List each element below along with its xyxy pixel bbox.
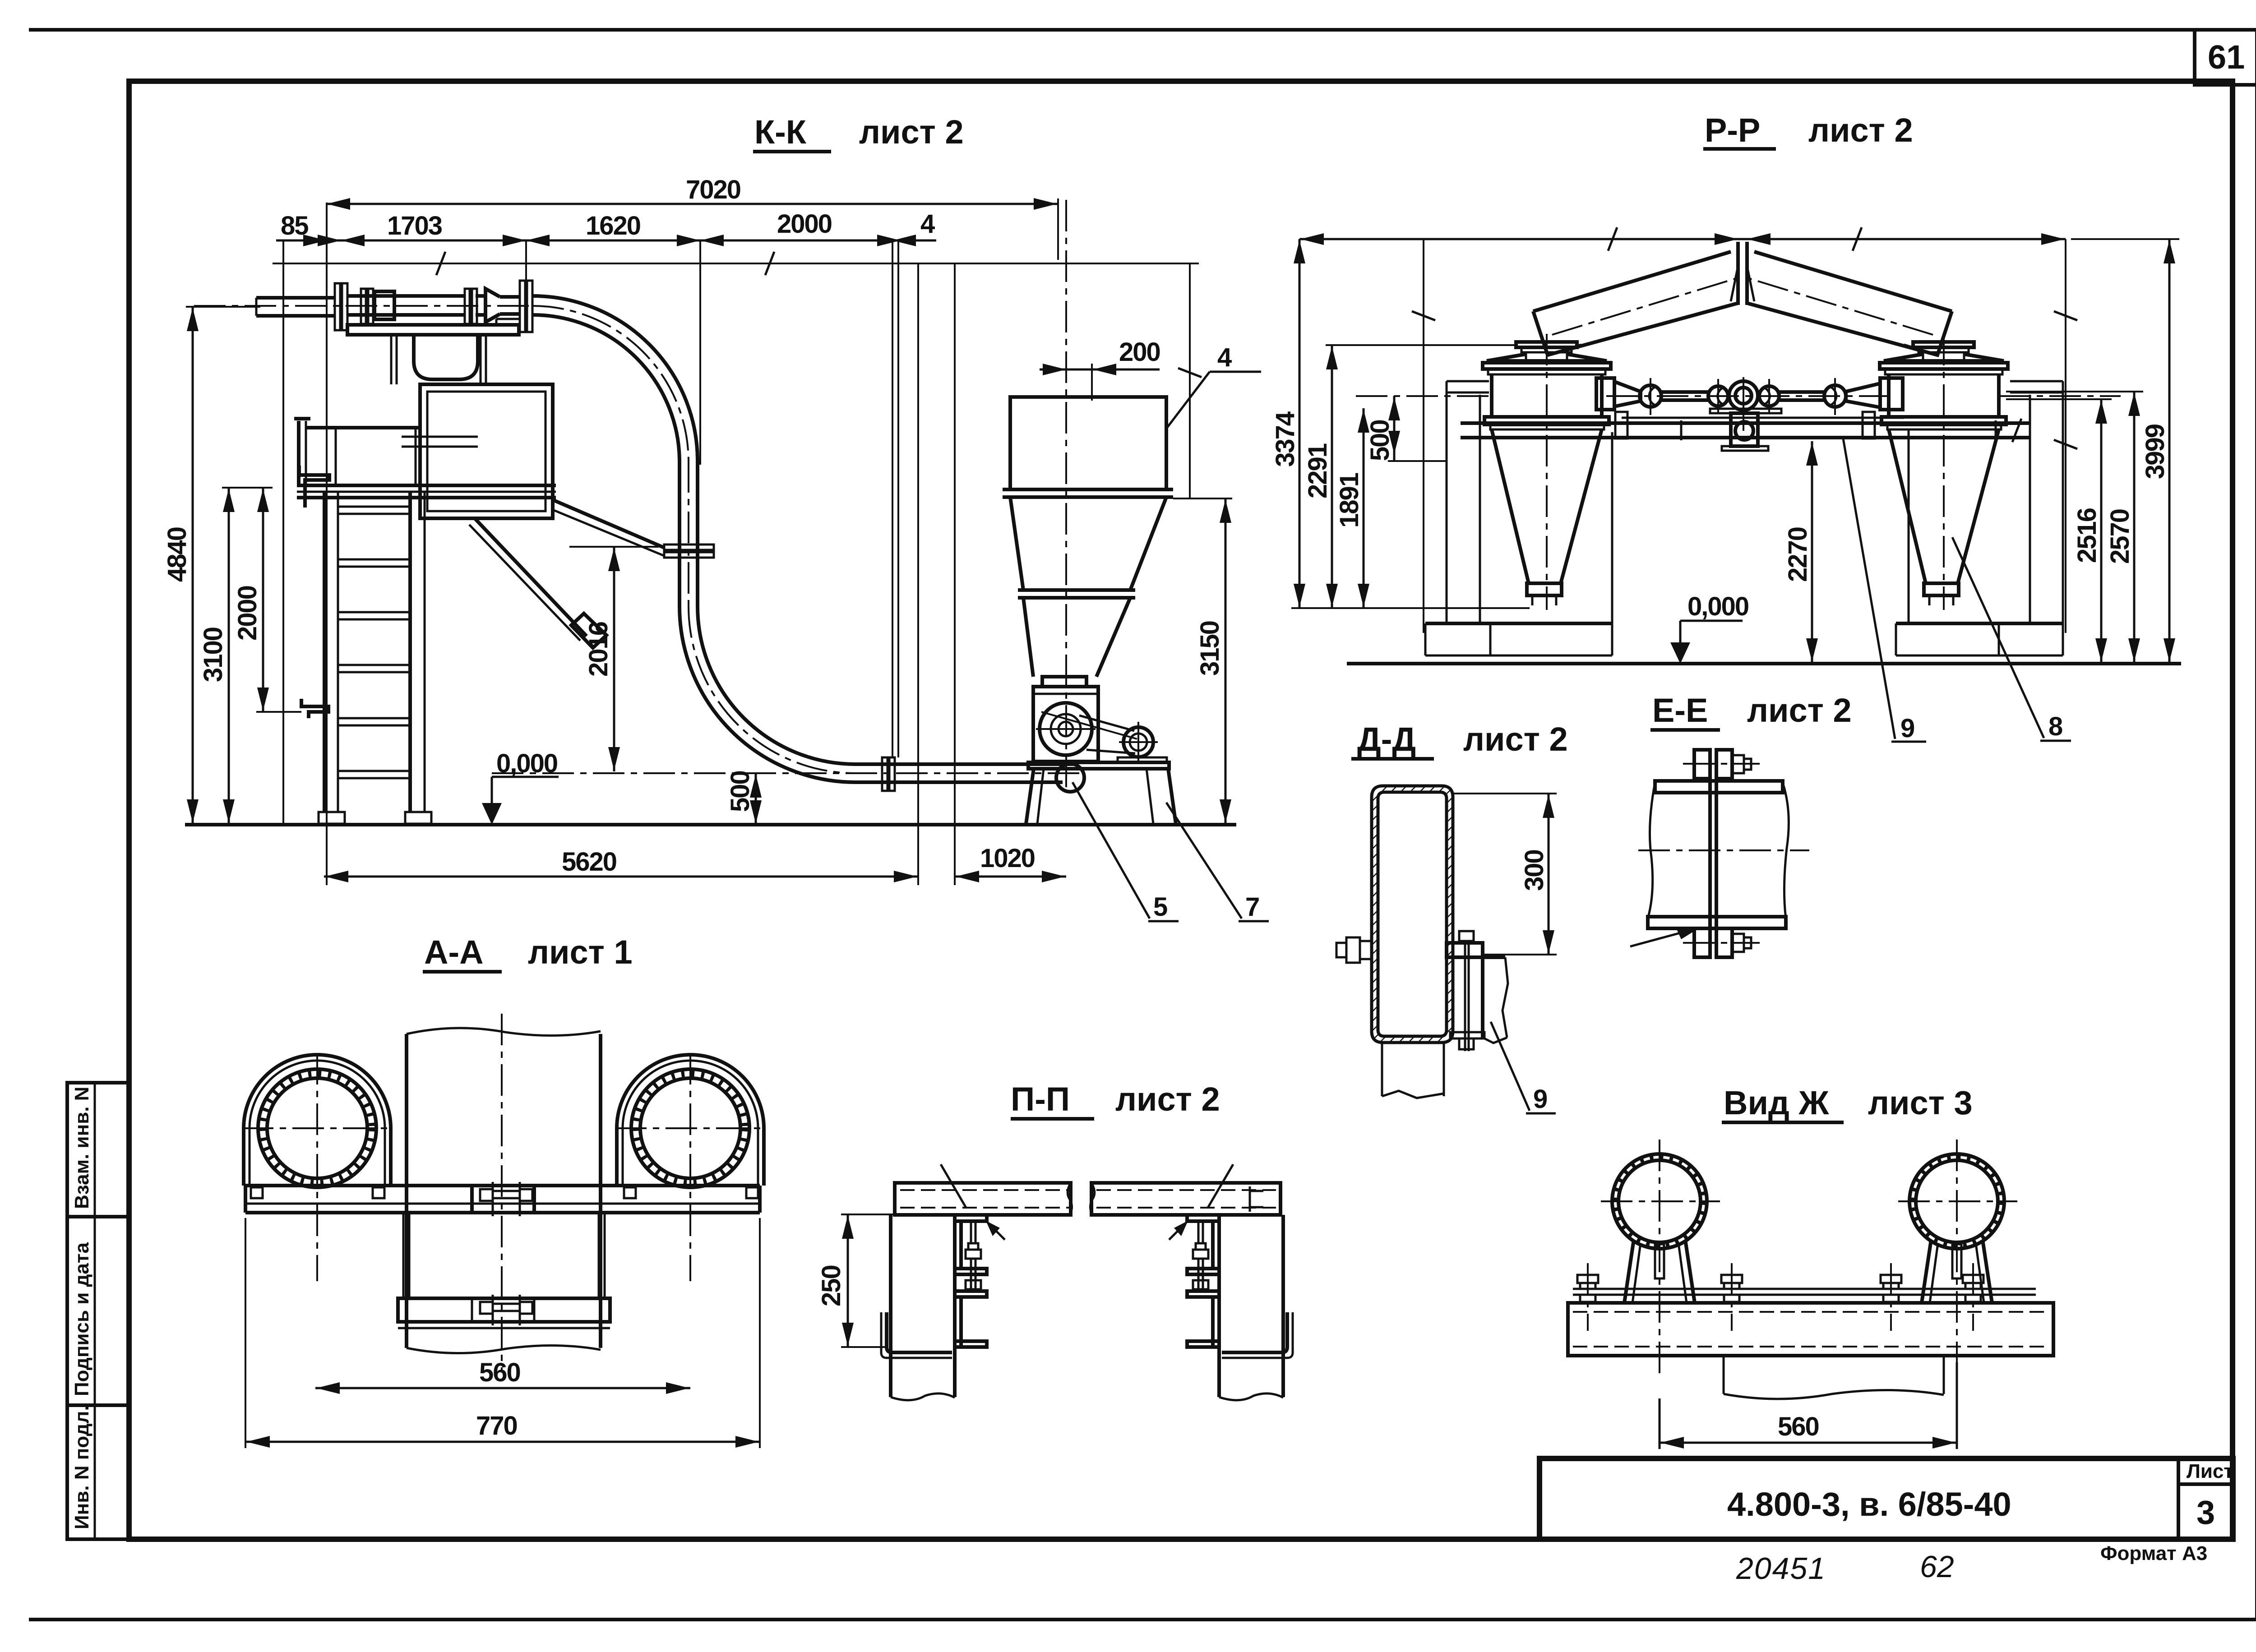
dimension 560 VZh [1660,1362,1957,1449]
VZh right saddle [1922,1240,1992,1303]
A-A right pipe [615,1053,766,1281]
dimension 2516 [2006,399,2112,663]
P-P right cyclone cone [1889,429,1999,605]
item label 4 [1166,343,1261,429]
dimension 2016 [569,547,659,771]
P-P left cyclone hat [1483,354,1611,374]
item label 8 [1952,537,2071,741]
svg-text:Взам. инв. N: Взам. инв. N [71,1087,93,1209]
P-P pipe right [1779,392,1825,400]
P-P left cyclone barrel [1484,374,1609,429]
svg-text:61: 61 [2208,38,2245,76]
P-P central union [1729,377,1758,431]
K-K extension 1552 [699,240,701,465]
PP right channel bracket [1187,1215,1219,1347]
PP right lower channel [1222,1312,1293,1358]
P-P pipe left [1661,392,1708,400]
svg-text:К-К: К-К [754,113,807,151]
svg-text:3150: 3150 [1195,621,1225,676]
K-K grid line 724 [326,203,328,885]
dimension 7020 [327,175,1058,260]
dimension 5620 [324,847,918,882]
E-E top bolt [1683,750,1760,779]
dimension 560 A-A [315,1358,690,1394]
sheet outer top line [29,28,2256,32]
P-P elevation 0,000 [1670,592,1748,664]
item label 5 [1073,782,1179,922]
left attribute strip [67,1083,129,1539]
svg-text:2270: 2270 [1783,527,1812,582]
dimension 4 [877,209,935,246]
dimension 200 [1040,337,1160,401]
svg-text:лист 2: лист 2 [1115,1080,1220,1118]
K-K blower box [1033,687,1098,761]
P-P left cyclone inlet stub [1516,342,1577,359]
item label 9 D-D [1491,1022,1556,1114]
title block [1539,1458,2233,1539]
K-K hanger right [481,335,486,384]
K-K top pipe left cap [255,298,258,316]
svg-text:5620: 5620 [562,847,616,877]
K-K ceiling line [273,252,1199,275]
handwritten 62 [1920,1550,1954,1584]
svg-text:300: 300 [1520,850,1549,891]
A-A U-bolt nuts [251,1187,758,1198]
P-P right foundation [1896,623,2063,655]
P-P extension at outlet bottom [1291,607,1530,609]
svg-text:Р-Р: Р-Р [1705,111,1760,149]
VIEW K-K title [753,113,964,152]
E-E title [1650,692,1852,730]
svg-text:4840: 4840 [162,527,192,582]
svg-text:лист 2: лист 2 [1808,111,1913,149]
item label 9 P-P [1843,438,1926,743]
D-D side bolt [1336,937,1372,963]
svg-text:2291: 2291 [1303,443,1332,498]
K-K blower stand [1026,762,1176,824]
svg-text:1620: 1620 [586,211,640,240]
P-P left roof duct [1533,252,1738,355]
Vid Zh title [1722,1084,1973,1122]
K-K extension 1166 [525,240,527,281]
K-K pipe coupling [374,291,394,319]
svg-text:1891: 1891 [1335,473,1364,528]
P-P right cyclone barrel [1882,374,2006,429]
E-E flange pair [1710,751,1716,956]
svg-text:770: 770 [476,1411,517,1440]
E-E pipe top wall [1655,781,1783,793]
svg-text:лист 3: лист 3 [1868,1084,1973,1121]
K-K railing frame [420,384,553,518]
P-P extension line right foundation [2054,239,2077,633]
svg-text:Инв. N подл.: Инв. N подл. [71,1405,93,1529]
svg-text:500: 500 [1365,420,1395,461]
D-D duct section [1372,786,1453,1043]
VZh right pipe [1898,1140,2017,1380]
P-P right cyclone centerline [1943,334,1945,610]
K-K grid line left [282,241,284,824]
K-K rounded chute panel [414,335,478,379]
svg-text:3100: 3100 [199,628,228,682]
PP left column [891,1215,955,1400]
PP right bolt [1193,1223,1208,1291]
K-K pipe reducer cone [485,289,500,322]
K-K pipe bend lower [680,606,855,782]
K-K wall line 2035 [917,263,919,885]
PP left channel bracket [955,1215,987,1347]
K-K platform floor [297,485,556,498]
dimension 3100 [199,488,273,824]
A-A column [407,1014,601,1371]
P-P piping centerline [1606,395,1891,397]
svg-text:лист 2: лист 2 [1747,692,1852,729]
svg-text:Е-Е: Е-Е [1652,692,1708,729]
P-P union A [1640,378,1661,415]
PP left lower channel [881,1312,952,1358]
K-K pipe flange pair 4 [520,281,532,332]
K-K wall bracket upper [299,466,329,508]
svg-text:3999: 3999 [2140,424,2170,479]
P-P left stand [1425,381,1612,623]
P-P left cyclone centerline [1546,334,1548,610]
PP left weld leaders [941,1164,1005,1240]
K-K mid rail [402,437,478,447]
A-A right U-bolt [617,1055,764,1186]
svg-text:Формат А3: Формат А3 [2100,1542,2207,1564]
E-E bottom bolt [1683,928,1760,957]
svg-text:4.800-3, в. 6/85-40: 4.800-3, в. 6/85-40 [1727,1486,2011,1523]
svg-text:П-П: П-П [1011,1080,1070,1118]
K-K pipe bend upper [532,296,698,462]
dimension 770 [245,1218,760,1448]
E-E pipe right break [1783,783,1789,918]
svg-text:2570: 2570 [2105,509,2135,564]
K-K railing end post [294,419,310,485]
dimension 500 P-P [1365,396,1446,461]
PP left bolt [966,1223,981,1291]
K-K hopper centerline [1065,200,1067,787]
VZh beam [1568,1303,2053,1356]
svg-text:2000: 2000 [777,209,832,239]
dimension 3150 [1173,498,1232,824]
PP right beam [1090,1183,1281,1215]
P-P apex pipe [1731,242,1754,305]
P-P union B [1708,379,1728,414]
P-P left foundation [1425,623,1612,655]
svg-text:1020: 1020 [980,844,1035,873]
P-P left reducer [1614,382,1641,406]
dimension 1703 [318,211,550,246]
VZh left pipe [1601,1140,1720,1380]
PP 250 extension lines [841,1214,895,1347]
K-K hanger left [391,335,397,384]
svg-text:7: 7 [1245,892,1259,922]
VZh left saddle [1624,1240,1695,1303]
svg-text:250: 250 [817,1265,846,1306]
dimension 1020 [955,844,1066,882]
K-K motor [1119,722,1158,763]
svg-text:А-А: А-А [424,933,484,971]
P-P support rail [1461,412,2030,442]
format note [2100,1542,2207,1564]
svg-text:лист 1: лист 1 [528,933,633,971]
item label 7 [1166,803,1269,922]
P-P left outlet box [1596,378,1614,410]
K-K pipe flange pair 1 [335,283,347,330]
K-K pipe elbow [1056,764,1084,792]
sheet outer right line [2255,30,2256,1620]
svg-text:20451: 20451 [1736,1551,1826,1586]
dimension 300 [1454,794,1557,955]
dimension 85 [281,211,365,246]
D-D lower flange [1447,943,1505,957]
A-A lower clamp band [398,1295,610,1328]
P-P extension line left foundation [1412,239,1435,633]
handwritten 20451 [1736,1551,1826,1586]
P-P union C [1759,379,1779,414]
P-P left cyclone cone [1492,429,1602,605]
svg-text:Д-Д: Д-Д [1357,720,1416,758]
K-K motor base [1118,757,1167,763]
D-D column below [1382,1043,1444,1098]
svg-text:200: 200 [1119,337,1160,367]
sheet outer bottom line [29,1618,2256,1621]
P-P right outlet box [1880,378,1903,410]
K-K belt lines [1079,715,1135,753]
svg-text:3374: 3374 [1271,411,1300,467]
P-P right cyclone hat [1880,354,2008,374]
page number box 61 [2195,30,2256,85]
A-A beam [245,1186,760,1213]
K-K floor line [185,823,1236,826]
svg-text:0,000: 0,000 [496,749,557,778]
K-K blower neck [1042,677,1086,687]
svg-text:9: 9 [1533,1084,1547,1114]
K-K ladder feet [319,812,431,824]
svg-text:Лист: Лист [2187,1460,2233,1482]
svg-text:Вид Ж: Вид Ж [1724,1084,1829,1121]
P-P right roof duct [1747,252,1952,355]
K-K top pipe body [194,296,532,316]
P-P central bracket [1710,409,1781,451]
E-E leader arrow [1630,928,1700,946]
P-P right stand [1896,381,2063,623]
svg-text:500: 500 [726,771,755,812]
svg-text:9: 9 [1900,714,1914,743]
VIEW P-P title [1703,111,1913,149]
svg-text:5: 5 [1153,892,1167,922]
K-K ladder rails [324,492,425,812]
svg-text:2016: 2016 [584,622,613,677]
K-K vertical pipe flange [664,545,714,558]
E-E pipe left break [1648,783,1655,918]
E-E pipe bottom wall [1648,917,1786,928]
K-K pipe support arm [553,500,664,556]
K-K hopper body [1003,397,1173,677]
svg-text:3: 3 [2196,1494,2215,1531]
E-E centerline [1638,849,1809,851]
dimension 2000 left [233,488,301,712]
K-K wall bracket mid [301,699,328,718]
dimension 2291 [1303,345,1516,608]
dimension 2270 [1783,441,1818,663]
svg-text:1703: 1703 [387,211,442,240]
dimension 1620 [503,211,724,246]
A-A left U-bolt [244,1055,391,1186]
dimension chain line [276,240,936,242]
K-K pipe flange pair 3 [465,289,477,324]
svg-text:560: 560 [1778,1412,1819,1441]
dimension 2570 [2006,392,2143,663]
svg-text:лист 2: лист 2 [859,113,964,151]
svg-text:лист 2: лист 2 [1463,720,1568,758]
dimension 3999 [2071,239,2179,663]
K-K diagonal brace [469,519,606,648]
K-K bottom pipe [492,764,1081,782]
P-P section title [1011,1080,1220,1119]
K-K vertical pipe [680,461,698,606]
VZh strap plate [1573,1289,2036,1295]
K-K wall line 2116 [954,263,956,885]
P-P union D [1824,378,1846,415]
dimension 1891 [1335,408,1369,608]
dimension 250 [817,1214,891,1347]
svg-text:0,000: 0,000 [1687,592,1748,621]
elevation 0,000 K-K [482,749,559,825]
svg-text:85: 85 [281,211,308,240]
svg-text:2000: 2000 [233,586,262,641]
A-A beam splice [472,1182,534,1216]
K-K bottom pipe flange [882,757,895,791]
svg-text:560: 560 [479,1358,520,1387]
dimension 2000 [677,209,916,246]
svg-text:Подпись и дата: Подпись и дата [71,1242,93,1396]
A-A left pipe [242,1053,393,1281]
K-K flange extension pair [892,240,898,757]
K-K support beam [347,319,519,335]
dimension 4840 [162,307,260,824]
dimension 500 K-K [726,771,762,825]
VZh strap bolts [1577,1263,1983,1331]
K-K fan circles [1036,703,1137,755]
K-K wall ext 2637 [1178,263,1202,498]
K-K ladder steps [338,507,410,778]
svg-text:7020: 7020 [686,175,740,204]
A-A lower clamp rods [403,1213,605,1298]
P-P top dimension line [1299,227,2066,251]
P-P right reducer [1846,383,1880,407]
D-D stud bolt [1450,931,1484,1051]
svg-text:4: 4 [1217,343,1232,372]
K-K pipe flange pair 2 [361,289,373,324]
PP right weld leaders [1169,1164,1233,1240]
PP left beam [895,1183,1072,1215]
D-D title [1351,720,1568,759]
VZh column below [1724,1356,1944,1399]
svg-text:62: 62 [1920,1550,1954,1584]
dimension 3374 [1271,239,1305,608]
svg-text:8: 8 [2048,712,2062,741]
P-P ground line [1347,662,2181,665]
svg-text:2516: 2516 [2072,508,2102,563]
svg-text:4: 4 [920,209,935,239]
D-D connecting duct [1483,957,1508,1043]
K-K ladder handrail [307,428,420,485]
P-P pipe axis extension right [1999,395,2121,397]
A-A title [423,933,633,972]
PP right column [1219,1215,1283,1400]
P-P pipe axis extension left [1356,395,1493,397]
P-P right cyclone inlet stub [1913,342,1974,359]
